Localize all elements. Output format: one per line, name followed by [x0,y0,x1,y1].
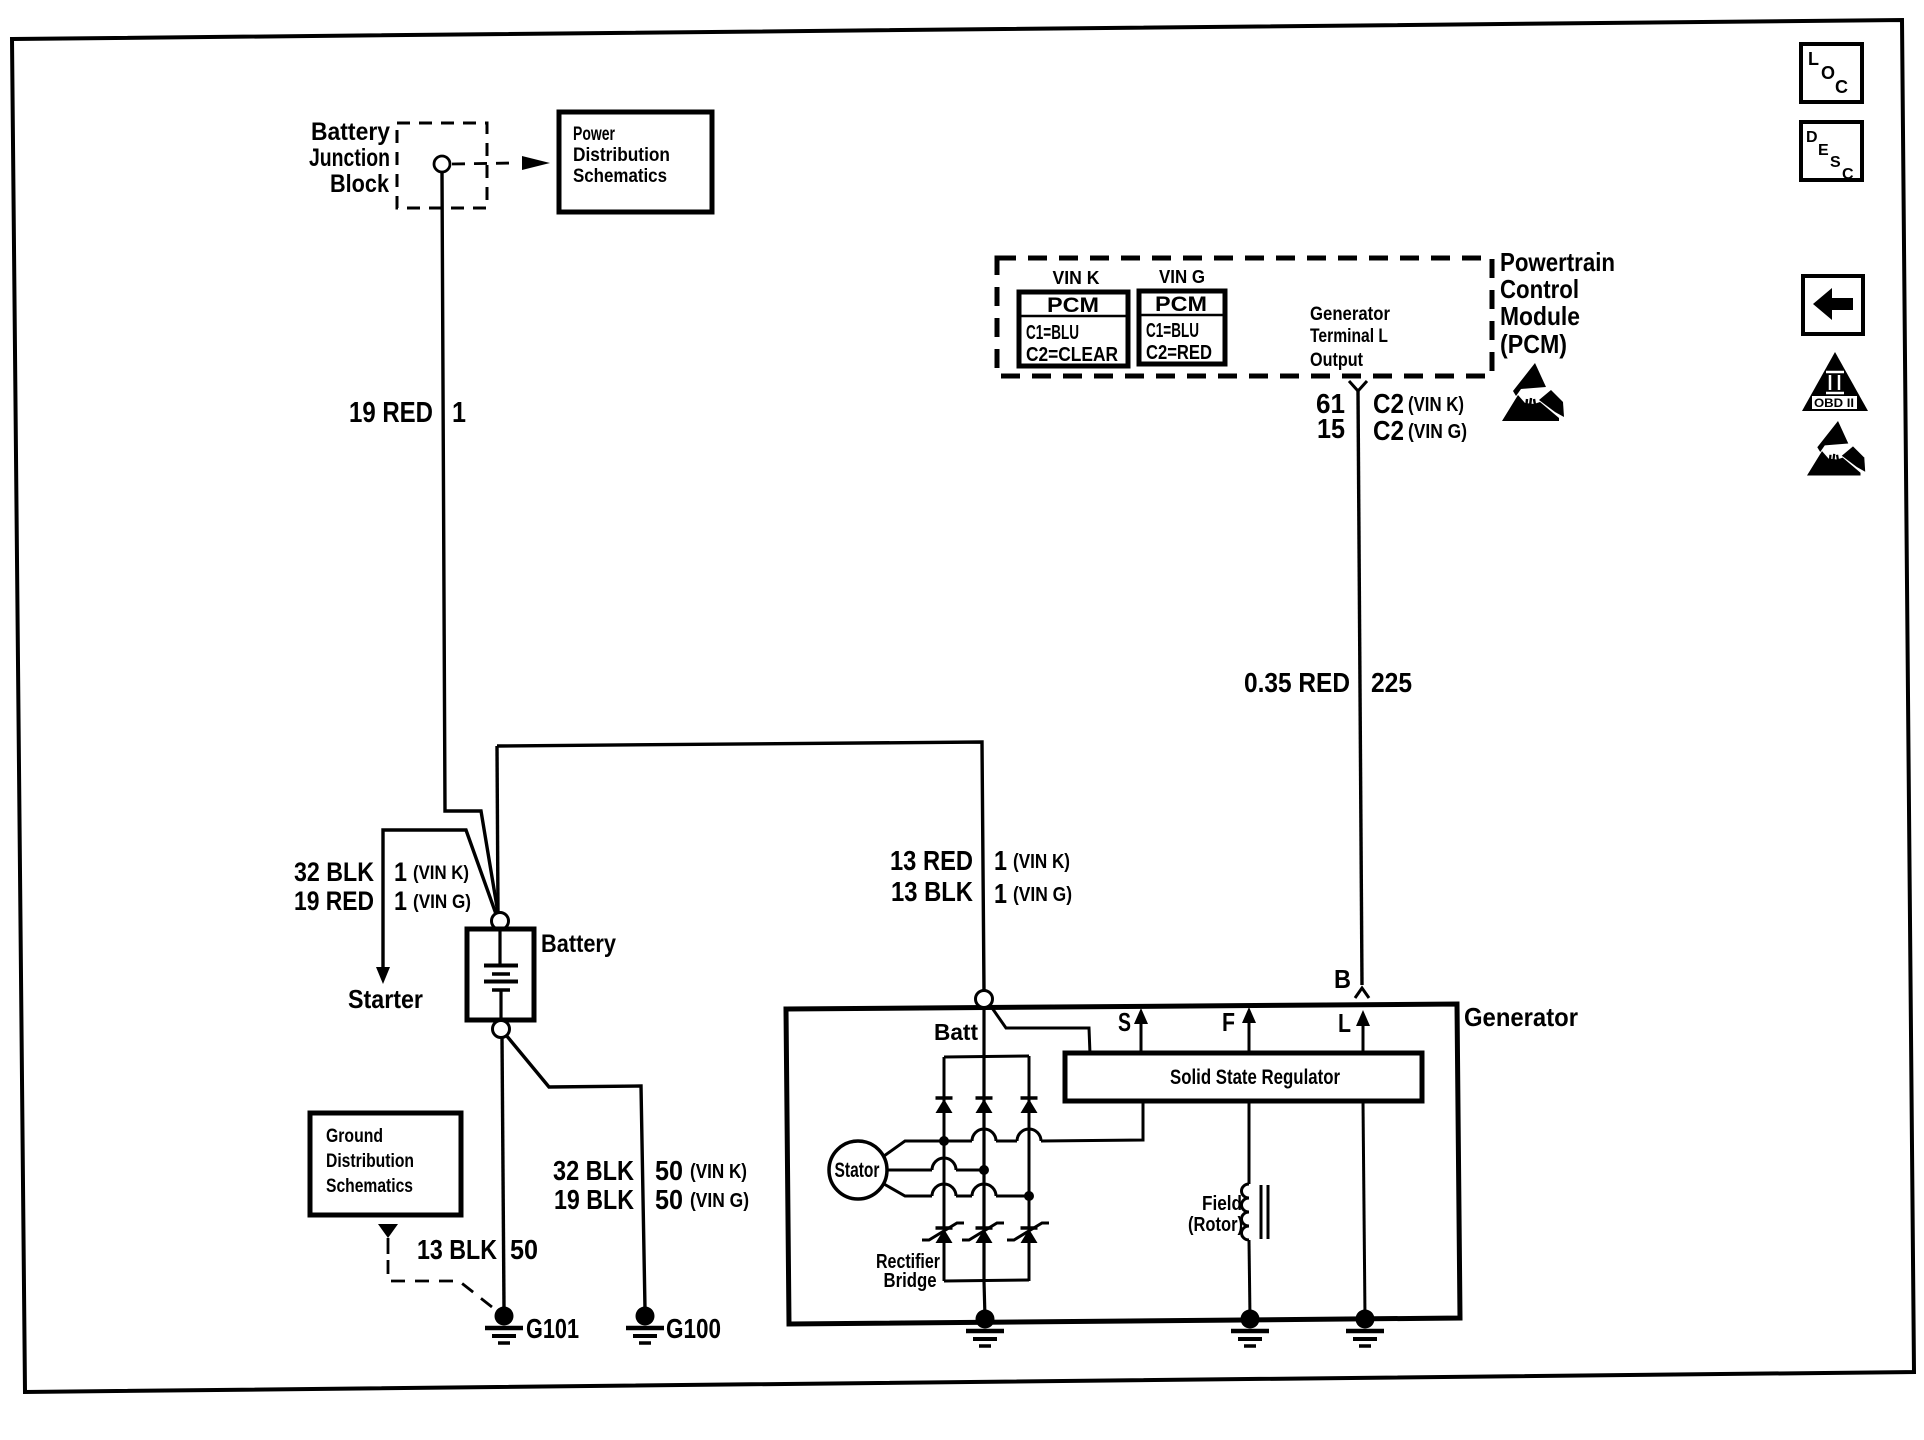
svg-text:C1=BLU: C1=BLU [1146,320,1199,342]
node: generator Batt terminal [976,991,993,1008]
generator internal ground (L) [1356,1310,1375,1329]
zener diode D5 (middle lower) [976,1226,993,1230]
svg-text:D: D [1806,129,1818,146]
svg-text:Ground: Ground [326,1126,383,1147]
terminal S arrow [1140,1022,1143,1052]
svg-text:G101: G101 [526,1313,579,1344]
svg-text:C2=CLEAR: C2=CLEAR [1026,344,1118,366]
rectifier left leg [943,1057,946,1281]
svg-text:OBD II: OBD II [1814,396,1854,410]
wire 19 RED 1 (junction block down to battery +) [442,172,498,913]
dashed reference wire to power distribution [452,163,514,164]
node: battery positive terminal [492,913,509,930]
svg-text:Field: Field [1202,1193,1242,1215]
svg-text:Powertrain: Powertrain [1500,247,1615,277]
svg-text:C2=RED: C2=RED [1146,342,1212,364]
svg-text:G100: G100 [666,1313,721,1344]
svg-text:Module: Module [1500,301,1580,331]
junction dot phase1/left leg [939,1136,949,1146]
battery box [467,929,534,1020]
icon LOC box [1801,44,1862,102]
rectifier bottom bus [944,1280,1029,1281]
svg-text:Bridge: Bridge [884,1270,937,1292]
svg-text:Control: Control [1500,274,1579,304]
svg-text:(VIN G): (VIN G) [1408,421,1467,443]
field rotor coil [1242,1184,1250,1240]
svg-text:Batt: Batt [934,1019,978,1045]
ground G101 [495,1307,514,1326]
svg-text:PCM: PCM [1047,294,1099,317]
svg-text:Generator: Generator [1464,1002,1578,1032]
junction dot phase3/right leg [1024,1191,1034,1201]
wire rectifier to ground [984,1281,985,1318]
rectifier middle leg [982,1056,985,1281]
battery cell symbol [498,931,501,964]
svg-text:Junction: Junction [309,144,390,172]
svg-text:Terminal L: Terminal L [1310,326,1388,347]
svg-text:Solid State Regulator: Solid State Regulator [1170,1066,1340,1089]
svg-text:Battery: Battery [541,930,616,958]
svg-text:Block: Block [330,170,389,198]
wire to starter (from battery +) [383,830,496,968]
wire L to ground [1363,1101,1365,1318]
svg-text:(PCM): (PCM) [1500,329,1567,359]
svg-text:Starter: Starter [348,984,423,1014]
svg-text:Schematics: Schematics [326,1176,413,1197]
svg-text:C2: C2 [1373,415,1404,446]
svg-text:225: 225 [1371,667,1412,698]
icon back-arrow box [1803,276,1863,334]
svg-text:13 RED: 13 RED [890,845,973,876]
diode D3 (right upper) [1021,1096,1038,1100]
PCM connector table VIN K [1019,292,1128,366]
svg-text:1: 1 [394,857,407,887]
wire field coil to ground [1249,1240,1250,1318]
wire Batt down to rectifier bus [982,1007,985,1056]
rectifier right leg [1028,1056,1031,1281]
diode D1 (left upper) [936,1096,953,1100]
svg-text:50: 50 [510,1234,538,1265]
dashed reference wire to G101 [388,1260,497,1311]
svg-text:19 BLK: 19 BLK [554,1184,634,1215]
svg-text:VIN K: VIN K [1053,268,1100,288]
generator internal ground (field) [1241,1310,1260,1329]
wire 13 RED/BLK 1 (battery + to generator Batt) [497,742,984,991]
svg-text:0.35 RED: 0.35 RED [1244,667,1350,698]
svg-text:1: 1 [394,886,407,916]
svg-text:L: L [1338,1008,1351,1038]
svg-text:1: 1 [994,845,1007,876]
connector C2 at PCM (Y symbol) [1349,381,1367,391]
svg-text:19 RED: 19 RED [294,886,374,916]
node: battery junction block terminal [434,156,450,172]
svg-text:C1=BLU: C1=BLU [1026,322,1079,344]
wire 0.35 RED 225 (PCM to generator L) [1358,391,1362,985]
svg-text:C: C [1842,166,1854,183]
stator phase wire 1 (top, to S sense) [884,1141,972,1156]
svg-text:PCM: PCM [1155,293,1207,316]
svg-text:32 BLK: 32 BLK [553,1155,634,1186]
svg-text:Generator: Generator [1310,304,1391,325]
ground distribution schematics box [310,1113,461,1215]
ground G100 [636,1307,655,1326]
stator phase wire 3 (bottom) [884,1184,932,1196]
svg-text:32 BLK: 32 BLK [294,857,374,887]
svg-text:VIN G: VIN G [1159,267,1205,287]
icon OBD II triangle [1802,352,1868,411]
svg-text:1: 1 [452,397,466,429]
svg-text:O: O [1821,63,1835,83]
icon esd triangle (right margin) [1817,421,1848,452]
svg-text:13 BLK: 13 BLK [417,1234,497,1265]
svg-text:S: S [1118,1007,1131,1037]
wire Batt to regulator [990,1005,1090,1054]
zener diode D4 (left lower) [936,1226,953,1230]
svg-text:(VIN K): (VIN K) [1013,851,1070,873]
diode D2 (middle upper) [976,1096,993,1100]
svg-text:B: B [1334,964,1351,994]
wire 32 BLK 50 (battery - to G100) [506,1035,645,1309]
terminal F arrow [1248,1021,1251,1052]
stator winding circle [829,1141,887,1199]
svg-text:50: 50 [655,1155,683,1186]
generator internal ground (rectifier) [976,1310,995,1329]
pointer triangle from ground distribution box [378,1224,398,1238]
svg-text:L: L [1808,49,1819,69]
icon DESC box [1801,122,1862,180]
power distribution schematics box [559,112,712,212]
svg-text:(VIN K): (VIN K) [690,1161,747,1183]
junction dot phase2/middle leg [979,1165,989,1175]
wire 13 BLK 50 (battery - to G101) [502,1037,504,1308]
svg-text:50: 50 [655,1184,683,1215]
svg-text:S: S [1830,154,1841,171]
svg-text:Output: Output [1310,350,1364,371]
solid state regulator box [1065,1053,1422,1101]
svg-text:19 RED: 19 RED [349,397,433,429]
svg-text:(VIN K): (VIN K) [1408,394,1464,416]
wire battery + up to bus [497,746,498,912]
svg-text:Schematics: Schematics [573,166,667,187]
esd warning symbol near PCM [1513,363,1546,396]
svg-text:15: 15 [1317,413,1345,444]
powertrain control module dashed box [997,258,1492,376]
svg-text:(VIN G): (VIN G) [413,892,471,913]
arrowhead to starter [376,967,390,984]
wire F to field coil [1248,1101,1251,1184]
svg-text:Stator: Stator [835,1159,880,1182]
svg-text:(VIN G): (VIN G) [1013,884,1072,906]
svg-text:Battery: Battery [311,118,390,146]
svg-text:(Rotor): (Rotor) [1188,1214,1243,1236]
svg-text:Distribution: Distribution [326,1151,414,1172]
svg-text:(VIN G): (VIN G) [690,1190,749,1212]
svg-text:C: C [1835,77,1848,97]
svg-text:(VIN K): (VIN K) [413,863,469,884]
svg-text:13 BLK: 13 BLK [891,876,973,907]
battery junction block dashed box [397,123,487,208]
connector chevron at generator B [1355,988,1369,998]
svg-text:1: 1 [994,878,1007,909]
generator box [786,1004,1460,1324]
rectifier top bus [944,1056,1029,1057]
svg-text:E: E [1818,142,1829,159]
PCM connector table VIN G [1139,291,1225,364]
arrow to power distribution schematics box [522,156,550,170]
svg-text:Distribution: Distribution [573,145,670,166]
node: battery negative terminal [493,1021,510,1038]
terminal L arrow [1362,1024,1365,1052]
stator phase wire 2 (middle) [887,1169,932,1172]
svg-text:Power: Power [573,124,615,145]
zener diode D6 (right lower) [1021,1226,1038,1230]
svg-text:F: F [1222,1007,1235,1037]
